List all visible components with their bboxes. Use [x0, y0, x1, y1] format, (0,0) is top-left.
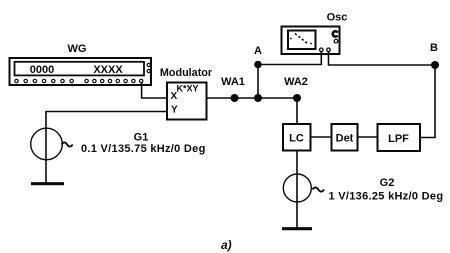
block LC box	[283, 124, 311, 151]
svg-text:B: B	[430, 42, 438, 54]
wire oscilloscope input 2 to node B	[329, 52, 436, 66]
WG output terminals	[147, 63, 150, 72]
oscilloscope trace dot right	[310, 43, 312, 45]
source G1 internal wire	[45, 129, 47, 184]
svg-text:WA1: WA1	[221, 76, 245, 88]
svg-text:Det: Det	[336, 133, 354, 145]
oscilloscope screen	[288, 31, 316, 50]
node A dot	[254, 61, 262, 69]
svg-text:0.1 V/135.75 kHz/0 Deg: 0.1 V/135.75 kHz/0 Deg	[81, 143, 206, 155]
svg-text:a): a)	[221, 238, 232, 252]
WG buttons left group	[15, 79, 74, 82]
node WA1 dot	[231, 94, 239, 102]
wire bus modulator output to WA2	[207, 97, 298, 99]
svg-text:Modulator: Modulator	[160, 67, 213, 79]
svg-text:1 V/136.25 kHz/0 Deg: 1 V/136.25 kHz/0 Deg	[329, 191, 444, 203]
source G1 circle	[31, 128, 63, 160]
svg-text:LC: LC	[289, 133, 304, 145]
oscilloscope bottom terminal 2	[327, 48, 331, 52]
svg-text:WG: WG	[68, 43, 87, 55]
svg-text:G1: G1	[134, 132, 149, 144]
svg-text:WA2: WA2	[284, 76, 308, 88]
oscilloscope trace	[295, 34, 308, 44]
svg-text:0000: 0000	[30, 64, 54, 76]
svg-text:A: A	[254, 45, 262, 57]
source G2 tilde	[313, 187, 325, 191]
source G1 wire to modulator Y	[46, 112, 167, 129]
ground under G2	[282, 227, 312, 230]
svg-text:X: X	[171, 91, 178, 102]
source G1 tilde	[62, 142, 73, 146]
junction dot under A	[254, 94, 262, 102]
oscilloscope trace dot left	[290, 38, 292, 40]
oscilloscope small terminal	[334, 39, 338, 43]
wire Det to LPF	[358, 136, 378, 138]
wire junction to node A	[257, 65, 259, 99]
wire node B to LPF output	[420, 65, 435, 138]
wire LC to G2 and ground	[296, 151, 298, 229]
block LPF box	[378, 124, 421, 151]
oscilloscope bottom terminal 1	[320, 48, 324, 52]
ground under G1	[31, 182, 64, 185]
oscilloscope box	[282, 27, 340, 55]
wire node A to oscilloscope input 1	[258, 52, 321, 65]
svg-text:LPF: LPF	[388, 133, 409, 145]
modulator U1 box	[167, 83, 207, 120]
svg-text:Y: Y	[171, 105, 178, 116]
generator WG outer box	[10, 58, 152, 85]
wire WG to modulator X	[142, 82, 167, 98]
wire WA2 to LC	[296, 98, 298, 124]
node WA2 dot	[293, 94, 301, 102]
oscilloscope knob	[333, 31, 338, 36]
block Det box	[332, 124, 358, 151]
source G2 circle	[283, 174, 311, 202]
svg-text:XXXX: XXXX	[93, 64, 123, 76]
node B dot	[431, 61, 439, 69]
generator WG display	[15, 62, 145, 76]
svg-text:Osc: Osc	[327, 12, 348, 24]
wire LC to Det	[311, 136, 332, 138]
WG buttons right group	[85, 79, 143, 82]
svg-text:G2: G2	[380, 177, 395, 189]
svg-text:K*XY: K*XY	[176, 84, 198, 94]
